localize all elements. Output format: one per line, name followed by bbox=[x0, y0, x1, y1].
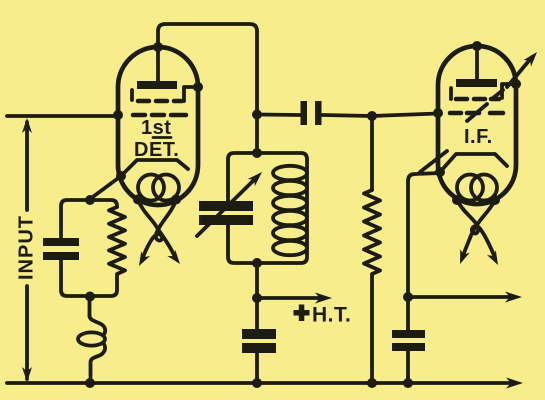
tank frame: top and left bbox=[228, 153, 257, 201]
arrowhead: input down bbox=[22, 367, 32, 382]
node: RC bottom bbox=[85, 292, 95, 302]
arrowhead: HT bbox=[315, 293, 332, 304]
node: HT junction bbox=[252, 293, 262, 303]
V2 grid dashes row 2 bbox=[450, 111, 503, 116]
arrowhead: output bbox=[505, 292, 522, 303]
capacitor C1 grid: top plate bbox=[43, 238, 79, 246]
wire: C5 to rail bbox=[406, 351, 410, 383]
node: L1 rail bbox=[85, 378, 95, 388]
node: C5 rail bbox=[403, 378, 413, 388]
arrowhead: V2 heater right bbox=[487, 250, 498, 265]
C3 variable arrow bbox=[197, 178, 256, 236]
V2 variable arrow segment 4 bbox=[507, 57, 532, 87]
valve V2 IF envelope bbox=[438, 46, 516, 204]
capacitor C1 grid: bottom plate bbox=[43, 252, 79, 260]
wire: RC node down to coil L1 bbox=[88, 296, 92, 316]
V2 grid left stub bbox=[449, 88, 453, 99]
wire: coupling line to C2 bbox=[257, 113, 300, 117]
tank frame: top right bbox=[257, 153, 307, 160]
node: RC top bbox=[85, 195, 95, 205]
node: coupling junction bbox=[252, 110, 262, 120]
HT arrow line bbox=[257, 296, 324, 300]
node: V2 left grid bbox=[433, 108, 443, 118]
V1 anode plate bbox=[137, 81, 177, 89]
wire: C4 to rail bbox=[255, 352, 259, 383]
wire: V2 cathode to bypass branch bbox=[408, 173, 440, 330]
resistor R2 zigzag bbox=[364, 190, 380, 383]
svg-text:1st: 1st bbox=[141, 117, 171, 139]
coil L2 turn 3 bbox=[273, 196, 307, 210]
arrowhead: V2 variable arrow bbox=[523, 52, 537, 67]
node: V2 cathode left bbox=[435, 167, 445, 177]
valve V1 1st DET envelope bbox=[118, 47, 198, 205]
coil L1 loop exit bbox=[91, 344, 106, 383]
V1 label st underline bbox=[153, 136, 171, 139]
V2 variable arrow segment 3 bbox=[493, 90, 503, 98]
V2 heater loop left bbox=[457, 175, 483, 201]
svg-text:DET.: DET. bbox=[134, 139, 179, 161]
V2 variable arrow segment 1 bbox=[420, 151, 447, 172]
V1 grid dashes row 1 bbox=[138, 99, 182, 104]
input span line: lower part bbox=[25, 286, 29, 379]
capacitor C2 coupling: right plate bbox=[315, 101, 322, 125]
V1 heater loop right bbox=[153, 175, 179, 201]
wire: tank bottom to HT node bbox=[255, 263, 259, 329]
coil L1 loop bbox=[78, 332, 105, 345]
node: V2 heater left bbox=[452, 195, 462, 205]
arrowhead: C3 arrow bbox=[248, 172, 262, 186]
node: V1 cathode left bbox=[116, 171, 126, 181]
V2 anode plate bbox=[456, 79, 497, 87]
arrowhead: input up bbox=[22, 118, 32, 133]
coil L2 right branch bbox=[257, 160, 307, 263]
node: V1 top cap bbox=[153, 42, 163, 52]
V1 anode side hook to envelope bbox=[184, 87, 198, 101]
capacitor C4 bypass: bottom plate bbox=[242, 343, 276, 353]
capacitor C5 bypass: bottom plate bbox=[392, 343, 425, 351]
V1 grid left stub bbox=[130, 90, 134, 100]
node: R2 rail bbox=[367, 378, 377, 388]
wire: bottom rail bbox=[7, 381, 516, 385]
coil L2 turn 6 bbox=[273, 241, 307, 255]
coil L2 turn 4 bbox=[273, 211, 307, 225]
node: tank bottom bbox=[252, 258, 262, 268]
resistor R2 riser bbox=[370, 116, 374, 190]
node: C4 rail bbox=[252, 378, 262, 388]
V2 grid dashes row 1 bbox=[456, 97, 499, 102]
wire: V1 cathode diagonal to RC node bbox=[90, 176, 121, 199]
V1 anode stem bbox=[156, 49, 160, 81]
capacitor C3 tuning: bottom plate bbox=[199, 215, 253, 225]
RC block frame top bbox=[61, 200, 117, 238]
node: V1 heater right bbox=[171, 195, 181, 205]
svg-text:INPUT: INPUT bbox=[16, 215, 38, 280]
resistor R1 grid leak zigzag bbox=[90, 207, 125, 296]
coil L2 turn 1 bbox=[273, 166, 307, 180]
node: V2 top bbox=[472, 41, 482, 51]
V1 heater lead crossing left with curl bbox=[143, 200, 176, 257]
svg-text:I.F.: I.F. bbox=[464, 126, 493, 148]
V2 anode side hook to envelope bbox=[502, 84, 516, 98]
V2 cathode trapezoid bbox=[440, 154, 507, 172]
node: V1 anode side bbox=[193, 82, 203, 92]
V2 heater loop right bbox=[471, 175, 497, 201]
capacitor C2 coupling: left plate bbox=[301, 101, 308, 125]
node: V1 heater left bbox=[133, 195, 143, 205]
arrowhead: V1 heater right bbox=[167, 250, 180, 264]
node: V2 heater right bbox=[490, 195, 500, 205]
V1 heater lead crossing right bbox=[138, 200, 174, 255]
wire: top cap lead from V1 anode to coupling node bbox=[158, 24, 257, 153]
label +H.T. bbox=[294, 305, 310, 322]
wire: C3 bottom lead and tank bottom bbox=[228, 224, 257, 263]
arrowhead: bottom rail right bbox=[506, 378, 523, 389]
coil L2 turn 5 bbox=[273, 226, 307, 240]
V2 variable arrow segment 2 slash bbox=[467, 104, 487, 121]
node: V1 left grid bbox=[113, 110, 123, 120]
coil L1 loop entry bbox=[90, 316, 106, 334]
V2 heater twisted pair leg right bbox=[463, 200, 495, 256]
V1 heater loop left bbox=[138, 175, 164, 201]
node: output junction bbox=[403, 292, 413, 302]
svg-text:H.T.: H.T. bbox=[312, 304, 351, 327]
capacitor C4 bypass: top plate bbox=[242, 329, 276, 339]
wire: C2 to R2 to V2 grid bbox=[322, 114, 438, 117]
V2 anode stem bbox=[475, 48, 479, 79]
V1 cathode trapezoid bbox=[121, 160, 188, 176]
wire: input top line bbox=[7, 114, 118, 118]
coil L2 turn 2 bbox=[273, 181, 307, 195]
wire: C1 bottom lead bbox=[61, 260, 90, 296]
capacitor C5 bypass: top plate bbox=[392, 330, 425, 338]
capacitor C3 tuning: top plate bbox=[199, 201, 253, 211]
input span line: upper part bbox=[25, 122, 29, 210]
arrowhead: V1 heater left bbox=[139, 251, 150, 266]
output arrow line bbox=[408, 295, 514, 299]
node: V2 anode side bbox=[511, 79, 521, 89]
node: tank top bbox=[252, 148, 262, 158]
node: R2 top bbox=[367, 111, 377, 121]
V2 heater twisted pair leg left bbox=[457, 200, 495, 258]
arrowhead: V2 heater left bbox=[460, 249, 470, 264]
V1 grid dashes row 2 bbox=[133, 113, 186, 118]
